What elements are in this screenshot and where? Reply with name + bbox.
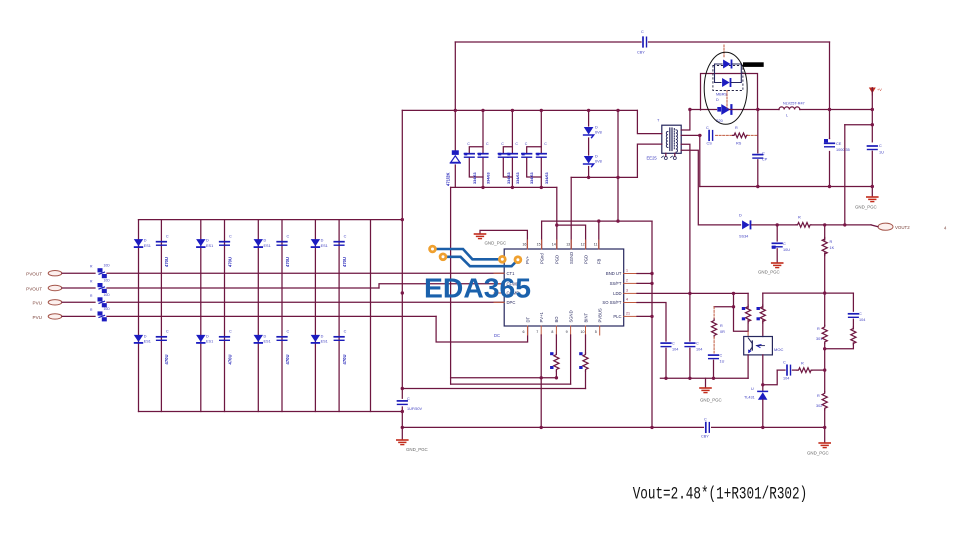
pin left CT1 xyxy=(494,271,515,276)
svg-text:PV+1: PV+1 xyxy=(539,311,544,322)
fuse F3 xyxy=(90,293,110,308)
wire rectified output line 3 xyxy=(800,109,873,111)
wire sense resistor to port xyxy=(811,224,871,226)
wire package stub up dashed xyxy=(723,45,725,58)
capacitor CR1b resonant xyxy=(478,142,491,184)
wire bottom bus right xyxy=(712,426,825,428)
junction xyxy=(823,347,826,350)
svg-text:ES1: ES1 xyxy=(264,340,271,344)
wire snubber drop xyxy=(699,135,701,186)
wire secondary ground return line xyxy=(700,186,873,188)
port P2 PVOUT xyxy=(26,285,62,291)
capacitor CY interbus xyxy=(701,418,709,439)
svg-text:R: R xyxy=(830,240,833,244)
svg-text:GND_PGC: GND_PGC xyxy=(855,205,877,210)
svg-text:C: C xyxy=(344,330,347,334)
junction xyxy=(454,109,457,112)
svg-text:SGND: SGND xyxy=(568,310,573,322)
wire c damp to sgnd xyxy=(713,360,715,378)
TL431 U2 xyxy=(744,387,767,400)
junction xyxy=(401,426,404,429)
svg-text:RS: RS xyxy=(736,142,742,146)
junction xyxy=(688,108,691,111)
junction xyxy=(511,186,514,189)
svg-text:D: D xyxy=(321,334,324,338)
wire r-damp feed line xyxy=(714,306,733,308)
svg-text:D: D xyxy=(716,98,719,102)
resistor R bot1 xyxy=(550,335,559,378)
svg-text:C: C xyxy=(720,354,723,358)
capacitor C102 top row xyxy=(220,235,233,268)
wire tl431 to bus xyxy=(762,400,764,428)
svg-text:C: C xyxy=(287,235,290,239)
junction xyxy=(616,219,619,222)
capacitor CR3b resonant xyxy=(536,142,549,184)
wire package stub down dashed xyxy=(726,91,728,109)
wire cap fb1 to sgnd seg xyxy=(665,348,667,378)
svg-text:334/63: 334/63 xyxy=(530,172,534,184)
wire electrolytic branch upper xyxy=(829,138,831,140)
svg-text:SGND: SGND xyxy=(569,252,574,264)
svg-text:CP: CP xyxy=(762,158,768,162)
wire chip agnd line xyxy=(480,230,527,249)
junction xyxy=(756,108,759,111)
capacitor C comp xyxy=(849,312,866,322)
wire rc to divider tap xyxy=(812,369,825,371)
capacitor C103 top row xyxy=(277,235,290,268)
wire pin9 drop to yB xyxy=(570,335,572,384)
via 1 xyxy=(428,245,437,254)
ground GND_PGC aux xyxy=(758,263,783,275)
svg-text:0R: 0R xyxy=(720,330,725,334)
svg-text:C: C xyxy=(525,142,528,146)
capacitor C201 bottom row xyxy=(157,330,170,365)
wire chip pin7 long drop xyxy=(540,335,542,427)
svg-text:6V8: 6V8 xyxy=(595,131,602,135)
port P4 PVU xyxy=(33,314,62,320)
wire fb segment xyxy=(637,292,748,294)
svg-text:470U: 470U xyxy=(227,354,232,364)
svg-text:PGnd: PGnd xyxy=(539,253,544,264)
svg-text:GND_PGC: GND_PGC xyxy=(406,447,428,452)
wire cap pair 1 bottom link xyxy=(469,158,483,178)
wire sec pin2 snubber row lead xyxy=(681,134,701,136)
junction xyxy=(871,108,874,111)
pin right 1 BND UT xyxy=(606,269,637,277)
svg-text:302: 302 xyxy=(816,404,822,408)
svg-text:2: 2 xyxy=(626,278,628,282)
svg-text:T: T xyxy=(657,119,660,123)
svg-text:11: 11 xyxy=(594,243,598,247)
pin left COMP xyxy=(494,291,519,296)
wire cap pair 3 feed from bus xyxy=(540,110,542,153)
capacitor C ref xyxy=(783,361,791,381)
svg-text:R: R xyxy=(90,280,93,284)
wire bus jog to second pin xyxy=(557,225,586,249)
diode D2 in package xyxy=(722,78,731,87)
wire sec pin4 to out diode line xyxy=(681,150,740,225)
svg-text:PVU: PVU xyxy=(33,301,42,306)
svg-text:PGD: PGD xyxy=(555,255,560,264)
svg-text:BINT: BINT xyxy=(583,313,588,323)
capacitor C202 bottom row xyxy=(220,330,233,365)
wire spare column xyxy=(370,220,372,412)
svg-text:471/2K: 471/2K xyxy=(446,172,451,186)
wire cap column 3 xyxy=(281,220,283,412)
svg-text:C: C xyxy=(704,418,707,422)
junction xyxy=(555,223,558,226)
svg-text:C: C xyxy=(762,152,765,156)
capacitor CR2b resonant xyxy=(507,142,520,184)
wire bus drop to chip pin xyxy=(556,187,558,249)
svg-text:D: D xyxy=(206,239,209,243)
svg-text:10U: 10U xyxy=(783,248,790,252)
pin right 2 SS/FT xyxy=(610,278,637,286)
wire bottom bus left xyxy=(402,426,703,428)
capacitor C aux xyxy=(772,242,791,252)
junction xyxy=(540,109,543,112)
svg-text:C: C xyxy=(641,30,644,34)
svg-text:470U: 470U xyxy=(164,257,169,267)
capacitor C damp xyxy=(709,354,725,364)
pin right 4 SO SS/FT xyxy=(602,298,637,306)
svg-text:C: C xyxy=(501,142,504,146)
wire power port stem xyxy=(871,88,873,142)
wire zener chain 2 stubs xyxy=(588,110,590,126)
wire fb drop jog to opto xyxy=(734,293,749,331)
svg-text:CS: CS xyxy=(707,142,713,146)
pin bottom 8 BO xyxy=(551,316,559,335)
junction xyxy=(597,219,600,222)
junction xyxy=(540,426,543,429)
svg-text:104: 104 xyxy=(672,348,678,352)
via 2 xyxy=(439,252,448,261)
svg-text:PV+: PV+ xyxy=(525,255,530,264)
svg-text:10D: 10D xyxy=(104,307,111,311)
svg-text:SO SS/FT: SO SS/FT xyxy=(602,300,622,305)
svg-text:4: 4 xyxy=(944,226,947,231)
wire opto pin3 to sgnd xyxy=(747,355,749,378)
junction xyxy=(650,426,653,429)
fuse F4 xyxy=(90,307,110,322)
svg-text:ES1: ES1 xyxy=(321,244,328,248)
diode D203 bottom row xyxy=(254,334,271,344)
svg-text:13: 13 xyxy=(566,243,570,247)
wire main left vertical rail xyxy=(401,110,403,398)
resistor R comp xyxy=(851,327,856,345)
wire cap pair 1 feed from bus xyxy=(482,110,484,153)
svg-text:EE25: EE25 xyxy=(647,156,658,161)
svg-text:1U: 1U xyxy=(720,360,725,364)
svg-text:6: 6 xyxy=(523,330,525,334)
wire cap column 2 xyxy=(224,220,226,412)
svg-text:ES1: ES1 xyxy=(144,244,151,248)
capacitor C101 top row xyxy=(157,235,170,268)
svg-text:470U: 470U xyxy=(285,257,290,267)
svg-text:1: 1 xyxy=(626,269,628,273)
wire vcc horizontal line xyxy=(542,220,652,222)
svg-text:MBRS: MBRS xyxy=(716,93,727,97)
resistor R led xyxy=(757,305,766,337)
svg-text:C: C xyxy=(229,235,232,239)
svg-text:NLV25T-R47: NLV25T-R47 xyxy=(783,102,805,106)
wire snubber cap vertical lower xyxy=(757,160,759,187)
svg-text:334/63: 334/63 xyxy=(473,172,477,184)
wire comp branch down xyxy=(852,293,854,311)
svg-text:U: U xyxy=(751,387,754,391)
wire input line 2 xyxy=(62,287,95,289)
capacitor C203 bottom row xyxy=(277,330,290,365)
wire input line 4 down-jog to chip bottom pin xyxy=(436,316,527,342)
wire rc mid xyxy=(792,369,797,371)
wire pin2 stub to vcc vertical xyxy=(637,282,652,284)
svg-text:ES1: ES1 xyxy=(264,244,271,248)
junction xyxy=(828,108,831,111)
junction xyxy=(823,368,826,371)
pin top 14 PGD xyxy=(552,240,560,264)
svg-text:LDD: LDD xyxy=(613,291,621,296)
wire sec pin1 up to rectifier line xyxy=(681,110,690,131)
wire bus corner to transformer pin1 xyxy=(637,110,661,133)
svg-text:CE: CE xyxy=(836,142,842,146)
diode D101 top row xyxy=(134,239,151,249)
pin top 11 FB xyxy=(594,240,602,264)
junction xyxy=(843,223,846,226)
svg-text:D: D xyxy=(739,214,742,218)
svg-text:10: 10 xyxy=(581,330,585,334)
wire drop to chip top pin 4 xyxy=(570,177,572,249)
junction xyxy=(828,185,831,188)
diode D204 bottom row xyxy=(311,334,328,344)
wire right vcc vertical long xyxy=(651,221,653,427)
junction xyxy=(732,305,735,308)
svg-text:470U: 470U xyxy=(342,354,347,364)
svg-text:+V: +V xyxy=(877,88,882,92)
label L1 xyxy=(783,102,805,118)
svg-text:BO: BO xyxy=(554,316,559,323)
svg-text:104: 104 xyxy=(783,377,789,381)
wire out diode to resistor xyxy=(752,224,797,226)
svg-text:10D: 10D xyxy=(104,279,111,283)
svg-text:FB: FB xyxy=(597,258,602,264)
junction xyxy=(401,387,404,390)
junction xyxy=(616,176,619,179)
capacitor CR2a resonant xyxy=(498,142,511,184)
pin top 16 PV+ xyxy=(522,240,530,264)
junction xyxy=(732,292,735,295)
wire fb top line right xyxy=(763,292,854,294)
wire cap pair 1 top link xyxy=(469,147,483,154)
junction xyxy=(823,426,826,429)
svg-text:C: C xyxy=(859,312,862,316)
capacitor C output ceramic xyxy=(868,144,885,155)
wire main left vertical below cap xyxy=(401,407,403,439)
junction xyxy=(823,223,826,226)
resistor R sense xyxy=(796,216,811,228)
svg-text:R: R xyxy=(90,308,93,312)
svg-text:D: D xyxy=(595,126,598,130)
svg-text:D: D xyxy=(264,239,267,243)
wire input line 2 jog xyxy=(379,284,504,288)
svg-text:PVU: PVU xyxy=(33,315,42,320)
fuse F1 xyxy=(90,264,110,279)
svg-text:6V8: 6V8 xyxy=(595,160,602,164)
svg-text:SS/FT: SS/FT xyxy=(610,281,622,286)
svg-text:1K: 1K xyxy=(830,246,835,250)
zener DZ3 xyxy=(584,155,602,167)
svg-text:R: R xyxy=(735,126,738,130)
svg-text:9: 9 xyxy=(566,330,568,334)
pin bottom 7 PV+1 xyxy=(536,311,544,335)
junction xyxy=(401,291,404,294)
capacitor CBY in top rail xyxy=(637,30,647,55)
wire rectified output line 2 xyxy=(729,109,779,111)
wire cap pair 2 drop to bottom bus xyxy=(511,158,513,188)
pin top 13 SGND xyxy=(566,240,574,264)
wire sgnd segment A xyxy=(451,377,557,379)
wire divider mid xyxy=(824,343,826,391)
svg-text:1000/35: 1000/35 xyxy=(836,148,850,152)
wire input line 4 xyxy=(62,315,95,317)
pin bottom 5 PVBUS xyxy=(595,308,603,335)
svg-text:EDA365: EDA365 xyxy=(424,273,531,304)
svg-text:C: C xyxy=(783,242,786,246)
svg-text:BND UT: BND UT xyxy=(606,271,622,276)
junction xyxy=(511,109,514,112)
junction xyxy=(481,186,484,189)
diode D201 bottom row xyxy=(134,334,151,344)
wire bus-to-vcc vertical xyxy=(617,110,619,221)
pin bottom 10 BINT xyxy=(581,313,589,335)
svg-text:Vout=2.48*(1+R301/R302): Vout=2.48*(1+R301/R302) xyxy=(633,484,808,504)
svg-text:104: 104 xyxy=(696,348,702,352)
svg-text:D: D xyxy=(264,334,267,338)
svg-text:DC: DC xyxy=(494,333,500,338)
resistor R301 xyxy=(816,293,827,343)
wire clamp frame xyxy=(701,74,758,111)
pin left CFWD xyxy=(494,281,519,286)
svg-text:GND_PGC: GND_PGC xyxy=(485,241,507,246)
wire grid top bus xyxy=(139,219,403,221)
wire cap column 4 xyxy=(338,220,340,412)
wire cap pair 3 drop to bottom bus xyxy=(540,158,542,188)
capacitor C fb1 xyxy=(661,342,678,352)
svg-text:21: 21 xyxy=(626,311,630,315)
svg-text:4: 4 xyxy=(626,298,628,302)
wire ref drop xyxy=(763,370,777,385)
junction xyxy=(650,315,653,318)
black redaction bar xyxy=(743,62,764,67)
svg-text:CBY: CBY xyxy=(701,435,709,439)
wire chip top pin2 riser xyxy=(541,221,543,249)
svg-text:C: C xyxy=(696,342,699,346)
svg-text:5: 5 xyxy=(595,330,597,334)
svg-text:334/63: 334/63 xyxy=(487,172,491,184)
junction xyxy=(481,109,484,112)
diode D3 rectifier xyxy=(716,98,732,123)
wire pin5 stub to vcc vertical xyxy=(637,315,652,317)
svg-text:15: 15 xyxy=(537,243,541,247)
junction xyxy=(540,376,543,379)
via 3 xyxy=(498,255,507,264)
svg-text:470U: 470U xyxy=(342,257,347,267)
wire bleeder stub xyxy=(824,225,826,240)
wire rectified output line xyxy=(690,109,717,111)
svg-text:PGD: PGD xyxy=(583,255,588,264)
svg-text:ES1: ES1 xyxy=(144,340,151,344)
wire top rail right drop lower part xyxy=(829,152,831,187)
wire package left link xyxy=(715,64,723,83)
junction xyxy=(587,109,590,112)
junction xyxy=(776,223,779,226)
svg-text:470U: 470U xyxy=(227,257,232,267)
wire diode column 2 xyxy=(200,220,202,412)
wire yC line xyxy=(402,388,585,390)
svg-text:D: D xyxy=(206,334,209,338)
wire diode column 3 xyxy=(257,220,259,412)
svg-text:12: 12 xyxy=(581,243,585,247)
svg-text:PLC: PLC xyxy=(613,314,621,319)
wire input line 4 segment xyxy=(107,315,436,317)
wire snubber dash1 xyxy=(716,134,735,136)
wire top bypass rail left segment xyxy=(455,41,641,43)
diode D4 SS34 xyxy=(739,214,751,239)
capacitor CS snubber xyxy=(706,126,713,146)
wire sgnd segment B xyxy=(660,377,748,379)
wire aux cap branch xyxy=(776,225,778,241)
diode D1 in package xyxy=(723,60,732,69)
svg-text:C: C xyxy=(672,342,675,346)
svg-text:R: R xyxy=(720,324,723,328)
port P3 PVU xyxy=(33,300,62,306)
svg-text:PVOUT: PVOUT xyxy=(26,286,42,291)
wire comp return xyxy=(825,343,854,349)
svg-text:D: D xyxy=(144,334,147,338)
svg-text:R: R xyxy=(90,294,93,298)
svg-text:VOUT2: VOUT2 xyxy=(895,225,910,230)
svg-text:10D: 10D xyxy=(104,264,111,268)
wire top bypass rail right segment xyxy=(649,41,830,43)
ground GND_PGC right xyxy=(855,197,878,210)
capacitor C204 bottom row xyxy=(334,330,347,365)
wire package right link xyxy=(731,64,741,83)
pin right 3 LDD xyxy=(613,288,637,296)
svg-text:C: C xyxy=(467,142,470,146)
logo trace 1 xyxy=(433,249,503,259)
capacitor C fb2 xyxy=(685,342,702,352)
op IC U1 LLC controller xyxy=(504,249,624,326)
svg-text:D: D xyxy=(321,239,324,243)
ground GND_PGC segment B xyxy=(700,378,722,402)
svg-text:C: C xyxy=(544,142,547,146)
wire cap pair 2 bottom link xyxy=(503,158,512,178)
pin left DPC xyxy=(494,300,515,305)
pin right 21 PLC xyxy=(613,311,637,319)
wire cap pair 1 drop to bottom bus xyxy=(482,158,484,188)
svg-text:C: C xyxy=(486,142,489,146)
diode D103 top row xyxy=(254,239,271,249)
wire cap pair 3 top link xyxy=(527,147,542,154)
svg-text:PVOUT: PVOUT xyxy=(26,272,42,277)
wire zener return line xyxy=(571,176,637,178)
resistor R bleeder xyxy=(822,238,835,256)
pin bottom 9 SGND xyxy=(566,310,574,335)
zener DZ1 on x=455 xyxy=(454,110,456,151)
ground GND_PGC chip top xyxy=(475,234,507,246)
junction xyxy=(712,377,715,380)
power port +V xyxy=(869,88,882,96)
svg-text:MOC: MOC xyxy=(774,347,783,352)
